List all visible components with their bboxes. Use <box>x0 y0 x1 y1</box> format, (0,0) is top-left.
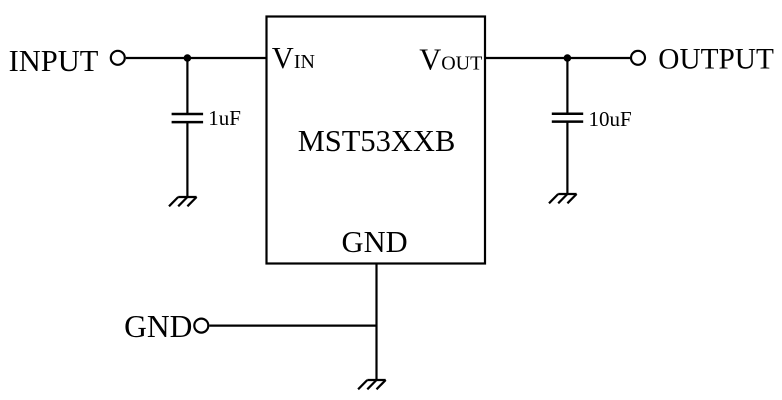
ground symbol below C1 <box>169 197 197 206</box>
terminal INPUT (open circle) <box>111 51 125 65</box>
capacitor C2 top plate <box>552 112 583 115</box>
ground symbol below C2 <box>549 194 577 203</box>
terminal OUTPUT (open circle) <box>631 51 645 65</box>
wire input node down to C1 <box>186 58 188 114</box>
svg-text:INPUT: INPUT <box>9 44 99 78</box>
svg-text:MST53XXB: MST53XXB <box>298 124 456 158</box>
IC U1 MST53XXB box <box>267 17 486 264</box>
wire C1 to ground <box>186 122 188 197</box>
ground symbol below GND pin <box>358 380 386 389</box>
svg-text:GND: GND <box>342 225 408 259</box>
wire output node down to C2 <box>566 58 568 114</box>
capacitor C2 bottom plate <box>552 120 583 123</box>
svg-text:VIN: VIN <box>272 41 315 75</box>
svg-text:OUTPUT: OUTPUT <box>658 43 774 75</box>
wire INPUT terminal to VIN pin <box>126 57 267 59</box>
junction dot input node <box>184 54 192 62</box>
junction dot output node <box>564 54 572 62</box>
svg-text:GND: GND <box>124 309 192 344</box>
wire GND terminal to GND net <box>209 325 376 327</box>
svg-text:VOUT: VOUT <box>419 43 482 77</box>
svg-text:1uF: 1uF <box>208 106 241 130</box>
wire GND pin down to ground <box>375 264 377 381</box>
terminal GND (open circle) <box>194 319 208 333</box>
capacitor C1 bottom plate <box>172 121 204 124</box>
svg-text:10uF: 10uF <box>589 107 632 131</box>
capacitor C1 top plate <box>172 113 204 116</box>
wire VOUT pin to OUTPUT terminal <box>485 57 630 59</box>
wire C2 to ground <box>566 122 568 194</box>
